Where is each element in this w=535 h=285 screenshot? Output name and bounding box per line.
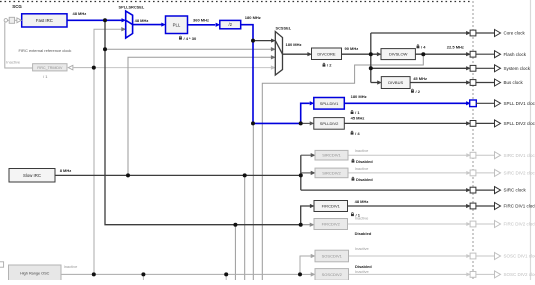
svg-text:45 MHz: 45 MHz [413,76,427,81]
svg-text:SIRC DIV1 clock: SIRC DIV1 clock [504,153,535,158]
svg-text:Disabled: Disabled [356,159,373,164]
svg-text:8 MHz: 8 MHz [60,168,72,173]
svg-text:DIVBUS: DIVBUS [388,80,403,85]
svg-text:/ 1: / 1 [355,110,360,115]
svg-text:SCSSEL: SCSSEL [276,26,292,31]
svg-text:Inactive: Inactive [355,269,370,274]
svg-text:/ 1: / 1 [43,74,48,79]
svg-text:SOSC DIV2 clock: SOSC DIV2 clock [504,272,535,277]
svg-text:Slow IRC: Slow IRC [23,173,41,178]
svg-text:Inactive: Inactive [355,148,370,153]
svg-text:SOSCDIV1: SOSCDIV1 [322,254,343,259]
svg-text:180 MHz: 180 MHz [286,42,302,47]
svg-text:Fast IRC: Fast IRC [36,18,53,23]
svg-text:Inactive: Inactive [64,264,79,269]
svg-text:Inactive: Inactive [6,60,21,65]
svg-text:System clock: System clock [504,66,531,71]
svg-text:DIVSLOW: DIVSLOW [389,52,408,57]
svg-text:48 MHz: 48 MHz [135,18,149,23]
svg-text:48 MHz: 48 MHz [355,199,369,204]
svg-text:/ 2: / 2 [416,89,421,94]
svg-text:90 MHz: 90 MHz [345,46,359,51]
svg-text:FIRC DIV1 clock: FIRC DIV1 clock [504,204,535,209]
svg-text:PLL: PLL [173,22,181,27]
svg-text:Bus clock: Bus clock [504,80,524,85]
svg-text:/ 4: / 4 [355,131,360,136]
svg-text:Inactive: Inactive [355,246,370,251]
svg-text:SPLLDIV1: SPLLDIV1 [320,101,339,106]
svg-text:180 MHz: 180 MHz [245,15,261,20]
svg-text:SPLLDIV2: SPLLDIV2 [320,121,339,126]
svg-text:SOSCDIV2: SOSCDIV2 [322,272,343,277]
svg-text:SPLL DIV2 clock: SPLL DIV2 clock [504,121,535,126]
svg-text:FIRC external reference clock: FIRC external reference clock [19,48,72,53]
svg-text:FIRCDIV1: FIRCDIV1 [322,204,341,209]
svg-text:High Range OSC: High Range OSC [20,272,50,276]
svg-text:48 MHz: 48 MHz [73,11,87,16]
svg-text:SCG: SCG [12,4,22,9]
svg-text:SPLL DIV1 clock: SPLL DIV1 clock [504,101,535,106]
svg-text:Disabled: Disabled [356,177,373,182]
svg-text:FIRCDIV2: FIRCDIV2 [322,222,341,227]
svg-text:Disabled: Disabled [355,231,372,236]
svg-text:SPLLSRCSEL: SPLLSRCSEL [119,5,145,10]
svg-text:SIRCDIV1: SIRCDIV1 [322,153,341,158]
svg-text:45 MHz: 45 MHz [351,116,365,121]
svg-text:22.5 MHz: 22.5 MHz [447,44,464,49]
svg-text:FIRC DIV2 clock: FIRC DIV2 clock [504,222,535,227]
svg-text:DIVCORE: DIVCORE [317,51,336,56]
svg-text:SIRCDIV2: SIRCDIV2 [322,170,341,175]
svg-text:/ 4 * 30: / 4 * 30 [184,36,197,41]
svg-text:SOSC DIV1 clock: SOSC DIV1 clock [504,254,535,259]
svg-text:FIRC_TRIMDIV: FIRC_TRIMDIV [37,66,63,70]
svg-text:360 MHz: 360 MHz [193,18,209,23]
svg-text:Inactive: Inactive [355,166,370,171]
svg-text:Disabled: Disabled [355,264,372,269]
svg-text:/ 4: / 4 [421,44,426,49]
svg-text:SIRC DIV2 clock: SIRC DIV2 clock [504,171,535,176]
svg-text:/ 1: / 1 [356,212,361,217]
svg-text:SIRC clock: SIRC clock [504,188,527,193]
svg-text:Flash clock: Flash clock [504,52,527,57]
svg-text:180 MHz: 180 MHz [351,94,367,99]
svg-text:Core clock: Core clock [504,31,526,36]
svg-text:/ 2: / 2 [327,63,332,68]
